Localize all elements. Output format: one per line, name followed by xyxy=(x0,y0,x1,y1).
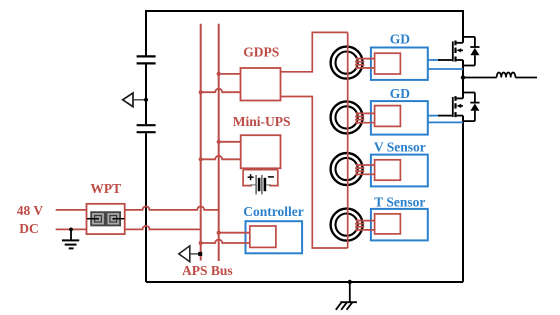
svg-text:V Sensor: V Sensor xyxy=(374,140,426,155)
svg-text:Controller: Controller xyxy=(243,204,304,219)
svg-text:GD: GD xyxy=(390,86,411,101)
svg-text:DC: DC xyxy=(19,221,39,236)
svg-text:T Sensor: T Sensor xyxy=(374,195,425,210)
svg-text:48 V: 48 V xyxy=(17,203,44,218)
svg-text:APS Bus: APS Bus xyxy=(182,263,233,278)
svg-text:GDPS: GDPS xyxy=(243,45,279,60)
svg-text:WPT: WPT xyxy=(90,181,121,196)
svg-text:Mini-UPS: Mini-UPS xyxy=(233,114,291,129)
svg-text:GD: GD xyxy=(390,32,411,47)
